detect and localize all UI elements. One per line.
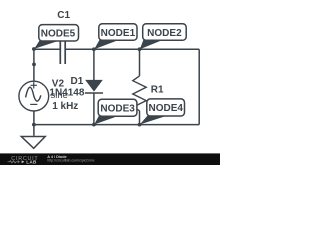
node NODE3 flag	[94, 99, 137, 124]
svg-text:R1: R1	[151, 85, 164, 96]
wire left vertical lower	[33, 111, 35, 125]
svg-text:D1: D1	[71, 76, 84, 87]
junction dot diode top	[92, 47, 96, 51]
voltage source V2 sine parameter label	[51, 90, 68, 101]
wire resistor branch lower	[139, 111, 141, 125]
wire right vertical	[198, 49, 200, 124]
wire diode branch lower	[93, 93, 95, 125]
junction dot diode bottom	[92, 123, 96, 127]
watermark bar	[0, 153, 220, 165]
ground	[21, 125, 45, 149]
diode D1	[85, 80, 103, 93]
svg-text:NODE5: NODE5	[41, 28, 76, 39]
wire resistor branch upper	[139, 49, 141, 76]
svg-text:NODE4: NODE4	[148, 103, 183, 114]
wire top horizontal left segment	[34, 48, 60, 50]
svg-text:1N4148: 1N4148	[49, 87, 84, 98]
svg-text:C1: C1	[57, 10, 70, 21]
diode D1 name label	[71, 76, 84, 87]
node NODE5 flag	[34, 25, 78, 49]
junction dot bottom left	[32, 123, 36, 127]
svg-text:NODE1: NODE1	[101, 28, 136, 39]
junction dot left middle	[32, 63, 36, 67]
wire bottom horizontal	[34, 124, 199, 126]
wire diode branch upper	[93, 49, 95, 80]
wire left vertical upper	[33, 49, 35, 81]
node NODE1 flag	[94, 24, 137, 50]
capacitor C1	[60, 34, 65, 65]
wire top horizontal right segment	[66, 48, 199, 50]
voltage source V2	[19, 81, 49, 111]
junction dot resistor bottom	[138, 123, 142, 127]
svg-text:httр://circuitlab.com/c/pk2nmx: httр://circuitlab.com/c/pk2nmx	[47, 158, 95, 162]
svg-text:LAB: LAB	[26, 160, 37, 165]
junction dot resistor top	[138, 47, 142, 51]
voltage source V2 frequency label	[52, 101, 78, 112]
resistor R1 name label	[151, 85, 164, 96]
svg-text:NODE2: NODE2	[147, 28, 182, 39]
svg-text:NODE3: NODE3	[100, 103, 135, 114]
svg-text:1 kHz: 1 kHz	[52, 101, 78, 112]
voltage source V2 name label	[52, 79, 65, 90]
node NODE2 flag	[140, 24, 186, 50]
node NODE4 flag	[140, 99, 185, 125]
capacitor C1 name label	[57, 10, 70, 21]
diode D1 part number label	[49, 87, 84, 98]
junction dot top left	[32, 47, 36, 51]
resistor R1	[133, 76, 146, 111]
